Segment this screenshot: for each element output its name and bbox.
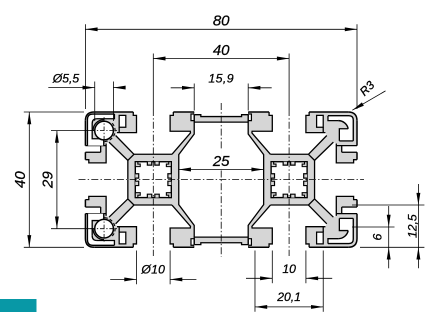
svg-text:12,5: 12,5 <box>405 214 419 238</box>
dim 20,1 (slot inner width) <box>254 251 256 312</box>
svg-text:40: 40 <box>12 171 29 188</box>
dim O5,5 (corner hole) <box>94 82 96 122</box>
dim 10 (slot opening) <box>271 251 273 284</box>
svg-text:10: 10 <box>282 262 296 276</box>
tower screw channel at x=20mm <box>135 162 171 198</box>
quadrant bl: slot side pockets <box>119 232 126 244</box>
tower centerline x=20mm <box>152 54 154 110</box>
quadrant br: tower faces <box>270 204 308 206</box>
quadrant tl: slot lips <box>117 112 137 133</box>
quadrant tr: T-slot cavity <box>252 110 327 154</box>
dim O10 (tower core) <box>135 251 137 285</box>
svg-text:6: 6 <box>371 234 385 241</box>
dim 40 (slot spacing) <box>153 58 289 60</box>
quadrant tr: boss arc <box>338 121 348 129</box>
hidden boss edge (dashed) tl <box>104 123 115 141</box>
quadrant br: slot side pockets <box>317 232 324 244</box>
quadrant bl: face recess <box>194 243 221 249</box>
quadrant tl: slot side pockets <box>119 115 126 127</box>
quadrant tl: face recess <box>194 110 221 116</box>
svg-text:Ø10: Ø10 <box>140 263 165 277</box>
quadrant tr: slot side pockets <box>317 115 324 127</box>
quadrant tr: end-slot cavity <box>315 142 359 180</box>
quadrant tr: corner screw-boss channel <box>328 116 353 141</box>
quadrant tr: outer faces <box>309 111 348 113</box>
dim 80 (overall width) <box>84 24 86 109</box>
quadrant bl: tower faces <box>134 204 172 206</box>
quadrant tr: tower faces <box>270 153 308 155</box>
quadrant tl: corner screw-boss channel <box>87 114 114 146</box>
svg-text:15,9: 15,9 <box>208 72 234 86</box>
quadrant br: outer faces <box>309 246 348 248</box>
corner hole circle O5.5 (tl) <box>95 121 114 140</box>
quadrant tr: slot lips <box>306 112 326 133</box>
quadrant tl: center cavity <box>179 122 221 180</box>
hole centerlines bl <box>91 228 118 230</box>
quadrant br: end-slot cavity <box>315 179 359 217</box>
svg-text:Ø5,5: Ø5,5 <box>52 72 80 86</box>
profile body (40x80 aluminium extrusion cross-section) <box>85 112 357 247</box>
svg-text:R3: R3 <box>357 78 378 99</box>
quadrant bl: outer faces <box>94 246 133 248</box>
dim 25 (center cavity width) <box>179 169 264 171</box>
dim 12,5 (slot depth) <box>352 204 424 206</box>
quadrant bl: boss arc <box>93 229 104 240</box>
quadrant tl: boss arc <box>93 120 104 131</box>
quadrant tl: T-slot cavity <box>116 110 191 154</box>
label R3 (corner radius) <box>352 91 385 110</box>
dim 29 (hole spacing) <box>51 130 95 132</box>
quadrant tl: tower faces <box>134 153 172 155</box>
hidden boss edge (dashed) bl <box>104 218 115 236</box>
quadrant tr: center cavity <box>221 122 263 180</box>
hole centerlines tl <box>91 130 118 132</box>
quadrant br: T-slot cavity <box>252 205 327 249</box>
quadrant bl: slot lips <box>117 227 137 248</box>
vertical centerline (profile middle) <box>220 103 222 151</box>
quadrant br: boss arc <box>338 231 348 239</box>
quadrant br: face recess <box>221 243 248 249</box>
dim 15,9 (face recess width) <box>193 84 195 111</box>
quadrant br: center cavity <box>221 179 263 237</box>
brand color bar <box>0 299 37 312</box>
quadrant bl: T-slot cavity <box>116 205 191 249</box>
dim 6 (slot lip height) <box>352 226 395 228</box>
svg-text:29: 29 <box>39 171 56 189</box>
svg-text:80: 80 <box>213 12 230 29</box>
quadrant tl: outer faces <box>94 111 133 113</box>
quadrant br: corner screw-boss channel <box>328 218 353 243</box>
svg-text:40: 40 <box>213 42 230 59</box>
quadrant tr: face recess <box>221 110 248 116</box>
tower screw channel at x=60mm <box>271 162 307 198</box>
corner hole circle O5.5 (bl) <box>95 219 114 238</box>
quadrant bl: end-slot cavity <box>84 179 128 217</box>
svg-text:25: 25 <box>212 153 230 170</box>
quadrant br: slot lips <box>306 227 326 248</box>
horizontal centerline <box>79 179 365 181</box>
quadrant bl: corner screw-boss channel <box>87 214 114 246</box>
svg-text:20,1: 20,1 <box>276 290 301 304</box>
dim 40 (overall height) <box>24 111 84 113</box>
tower centerline x=60mm <box>288 54 290 110</box>
quadrant tl: end-slot cavity <box>84 142 128 180</box>
quadrant bl: center cavity <box>179 179 221 237</box>
